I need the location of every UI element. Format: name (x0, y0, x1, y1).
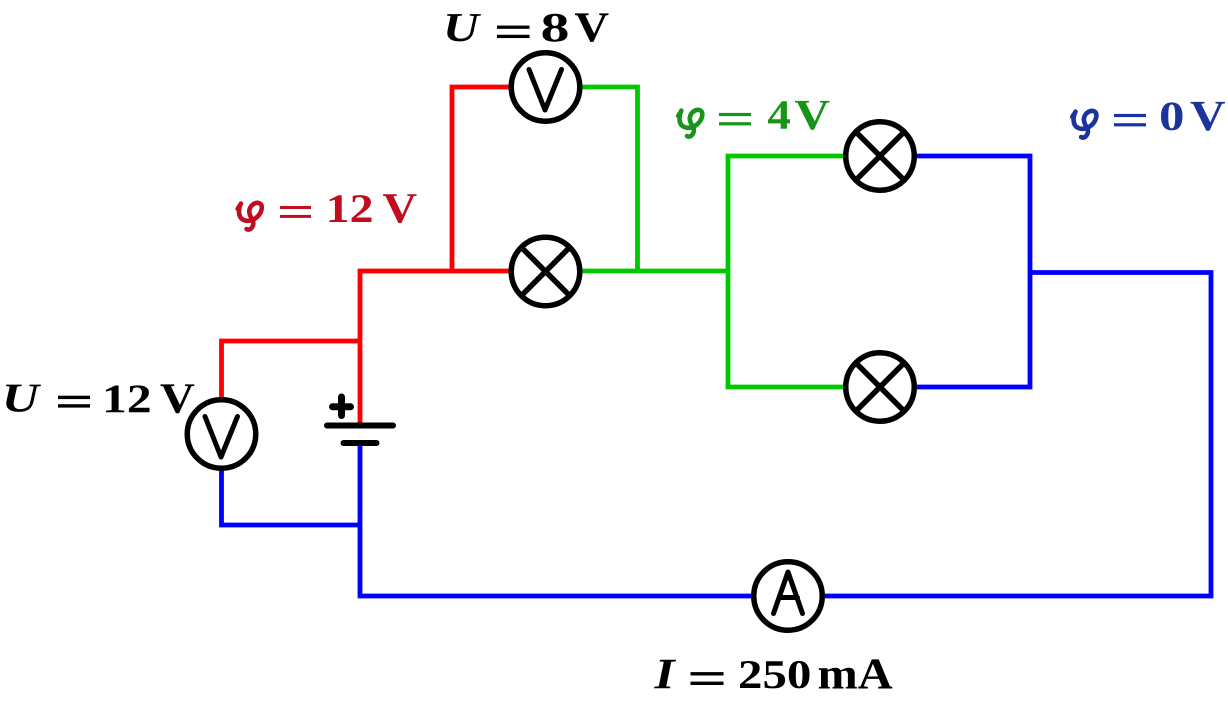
label text V of phi=4V (795, 101, 830, 130)
label text 4 of phi=4V (768, 101, 790, 129)
label text U of U=12V (6, 385, 41, 412)
equals of phi=12V (280, 206, 311, 218)
label text 12 of U=12V (106, 385, 150, 412)
battery B1 plus sign (333, 397, 351, 416)
lamp L2 circle (846, 122, 915, 191)
wire red: voltmeter V2 left lead and drop to top rail node (452, 87, 510, 271)
voltmeter V1 letter V (205, 417, 238, 458)
label text mA of I=250mA (819, 659, 893, 688)
lamp L1 cross (521, 247, 569, 295)
wire blue: lamp L2 right, down, to lamp L3 right (916, 156, 1030, 387)
voltmeter V1 circle (187, 400, 256, 469)
voltmeter V2 letter V (529, 70, 562, 111)
label text 12 of phi=12V (330, 195, 372, 222)
label text 250 of I=250mA (740, 661, 810, 689)
wire green: lamp L1 right toward parallel split (582, 269, 728, 274)
label text I of I=250mA (654, 660, 676, 689)
ammeter A1 circle (754, 562, 823, 631)
label text V of U=8V (575, 13, 609, 42)
wire red: top rail to lamp L1, corner down to battery plus (360, 271, 510, 423)
battery B1 positive plate (327, 423, 393, 429)
wire green: parallel split feeding lamps L2 and L3 (728, 156, 844, 387)
lamp L2 cross (856, 132, 904, 180)
equals of U=12V (58, 396, 90, 408)
ammeter A1 letter A (774, 572, 803, 614)
label text 8 of U=8V (543, 14, 568, 42)
equals of U=8V (497, 26, 530, 39)
phi of phi=12V (237, 203, 262, 230)
lamp L3 circle (846, 353, 915, 422)
equals of I=250mA (691, 672, 724, 685)
label text V of phi=0V (1191, 102, 1226, 131)
wire red: branch to voltmeter V1 top (222, 341, 361, 398)
wire green: voltmeter V2 right lead down to rail node (581, 87, 638, 271)
battery B1 negative plate (344, 440, 377, 446)
phi of phi=0V (1071, 111, 1096, 138)
wire blue: join to right edge, down and along bottom to ammeter (825, 273, 1211, 597)
equals of phi=4V (719, 113, 751, 125)
wire blue: branch to voltmeter V1 bottom (222, 470, 361, 525)
lamp L1 circle (511, 237, 580, 306)
voltmeter V2 circle (511, 53, 580, 122)
lamp L3 cross (856, 363, 904, 411)
label text V of U=12V (161, 384, 195, 413)
equals of phi=0V (1114, 114, 1146, 126)
phi of phi=4V (677, 110, 702, 137)
label text V of phi=12V (383, 194, 417, 223)
label text 0 of phi=0V (1161, 102, 1183, 130)
wire blue: ammeter left back to battery minus (360, 444, 751, 596)
label text U of U=8V (447, 14, 481, 41)
